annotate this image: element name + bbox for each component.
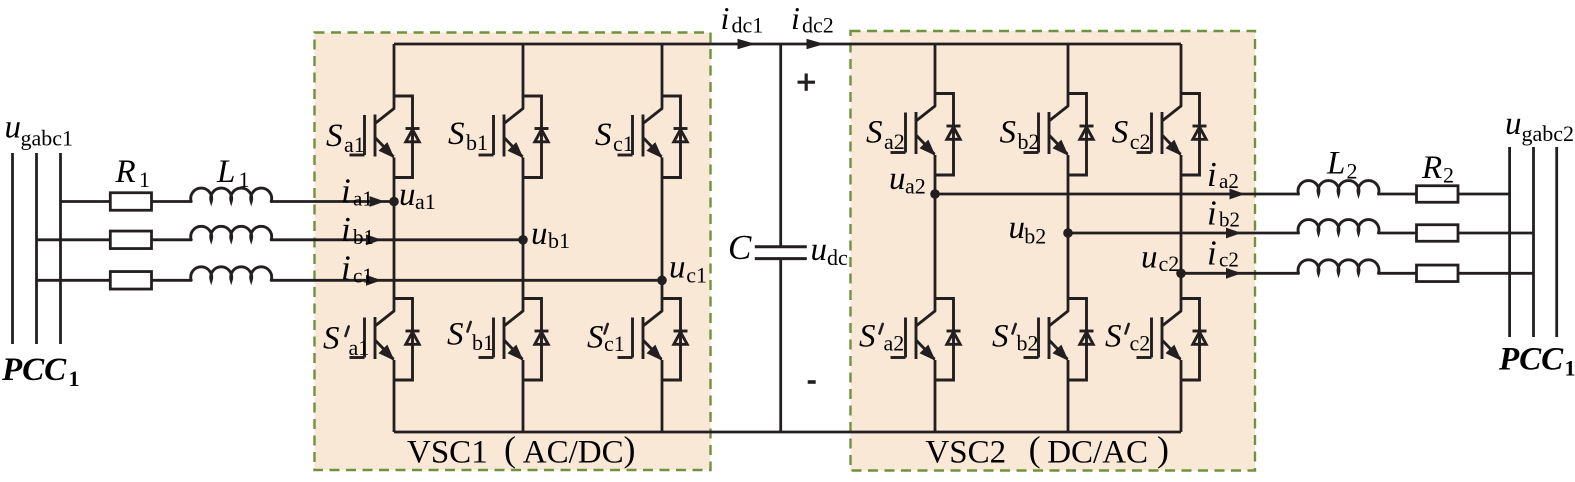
svg-text:u: u [1141,240,1158,276]
svg-text:b1: b1 [472,330,494,355]
svg-text:gabc1: gabc1 [21,126,74,151]
svg-text:(: ( [504,429,516,469]
svg-text:b2: b2 [1018,129,1040,154]
svg-text:S: S [1112,115,1129,151]
svg-text:i: i [1207,155,1217,194]
svg-text:S: S [866,115,883,151]
svg-text:a2: a2 [884,331,905,356]
svg-text:PCC: PCC [1498,342,1564,378]
svg-text:i: i [341,249,351,288]
svg-text:dc2: dc2 [802,13,834,38]
svg-text:i: i [1207,234,1217,273]
svg-text:i: i [341,210,351,249]
svg-text:S: S [587,320,604,356]
svg-text:c2: c2 [1219,248,1239,272]
svg-text:gabc2: gabc2 [1522,121,1575,146]
svg-text:R: R [115,154,136,190]
svg-text:u: u [5,110,22,146]
svg-text:1: 1 [239,167,250,192]
svg-text:S: S [992,319,1009,355]
svg-text:(: ( [1029,429,1041,469]
svg-text:u: u [399,177,416,213]
svg-text:i: i [791,0,800,36]
svg-text:c1: c1 [604,331,625,356]
svg-text:i: i [1207,194,1217,233]
svg-text:1: 1 [1565,356,1575,381]
svg-text:DC/AC: DC/AC [1047,435,1148,471]
svg-text:b1: b1 [548,228,570,253]
svg-text:c2: c2 [1159,251,1180,276]
svg-text:b1: b1 [353,225,374,249]
svg-text:): ) [1157,429,1169,469]
svg-text:S: S [595,117,612,153]
svg-text:2: 2 [1443,163,1454,188]
svg-text:b2: b2 [1219,208,1240,232]
svg-text:c1: c1 [613,131,634,156]
svg-text:S: S [1000,115,1017,151]
svg-text:PCC: PCC [1,352,67,388]
svg-text:S: S [323,321,340,357]
svg-text:S: S [326,118,343,154]
svg-text:R: R [1421,150,1442,186]
svg-text:L: L [1326,146,1345,182]
svg-text:a2: a2 [884,129,905,154]
svg-text:a1: a1 [353,187,373,211]
svg-text:S: S [448,116,465,152]
svg-text:u: u [811,232,828,268]
svg-text:b2: b2 [1017,331,1039,356]
svg-text:C: C [728,228,752,267]
svg-text:AC/DC: AC/DC [523,435,624,471]
svg-text:a1: a1 [344,132,365,157]
svg-text:2: 2 [1347,159,1358,184]
svg-text:u: u [1009,210,1026,246]
svg-text:VSC1: VSC1 [407,435,488,471]
svg-text:u: u [1505,106,1522,142]
svg-text:1: 1 [69,366,80,391]
svg-text:S: S [1105,319,1122,355]
svg-text:u: u [531,216,548,252]
svg-text:a2: a2 [905,174,926,199]
svg-text:a1: a1 [349,335,370,360]
svg-text:i: i [721,0,730,36]
svg-text:1: 1 [139,167,150,192]
svg-text:): ) [624,429,636,469]
svg-text:S: S [447,317,464,353]
svg-text:c2: c2 [1130,129,1151,154]
svg-text:L: L [216,154,235,190]
svg-text:a1: a1 [415,189,436,214]
svg-text:i: i [341,172,351,211]
svg-text:b2: b2 [1024,224,1046,249]
svg-text:c1: c1 [353,264,373,288]
svg-text:VSC2: VSC2 [925,435,1006,471]
svg-text:b1: b1 [466,130,488,155]
svg-text:a2: a2 [1219,169,1239,193]
svg-text:c2: c2 [1130,331,1151,356]
svg-text:c1: c1 [686,263,707,288]
svg-text:dc1: dc1 [732,13,764,38]
svg-text:dc: dc [827,245,848,270]
svg-text:u: u [669,250,686,286]
svg-text:u: u [889,161,906,197]
svg-text:S: S [859,319,876,355]
